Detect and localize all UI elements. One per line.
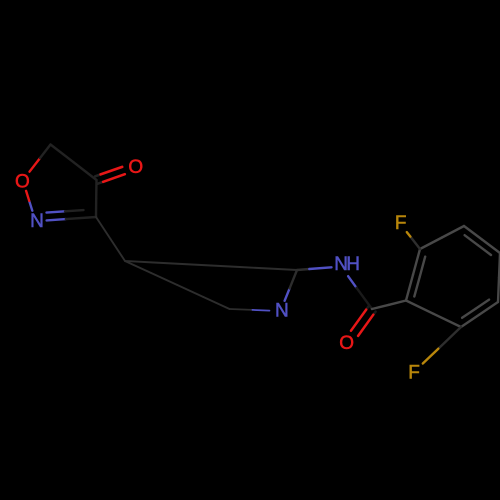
svg-text:N: N bbox=[30, 211, 43, 232]
svg-text:NH: NH bbox=[334, 254, 359, 275]
svg-text:O: O bbox=[339, 333, 353, 354]
svg-text:F: F bbox=[395, 213, 406, 234]
svg-text:O: O bbox=[15, 171, 29, 192]
svg-text:O: O bbox=[128, 157, 142, 178]
svg-text:N: N bbox=[275, 301, 288, 322]
svg-text:F: F bbox=[408, 363, 419, 384]
